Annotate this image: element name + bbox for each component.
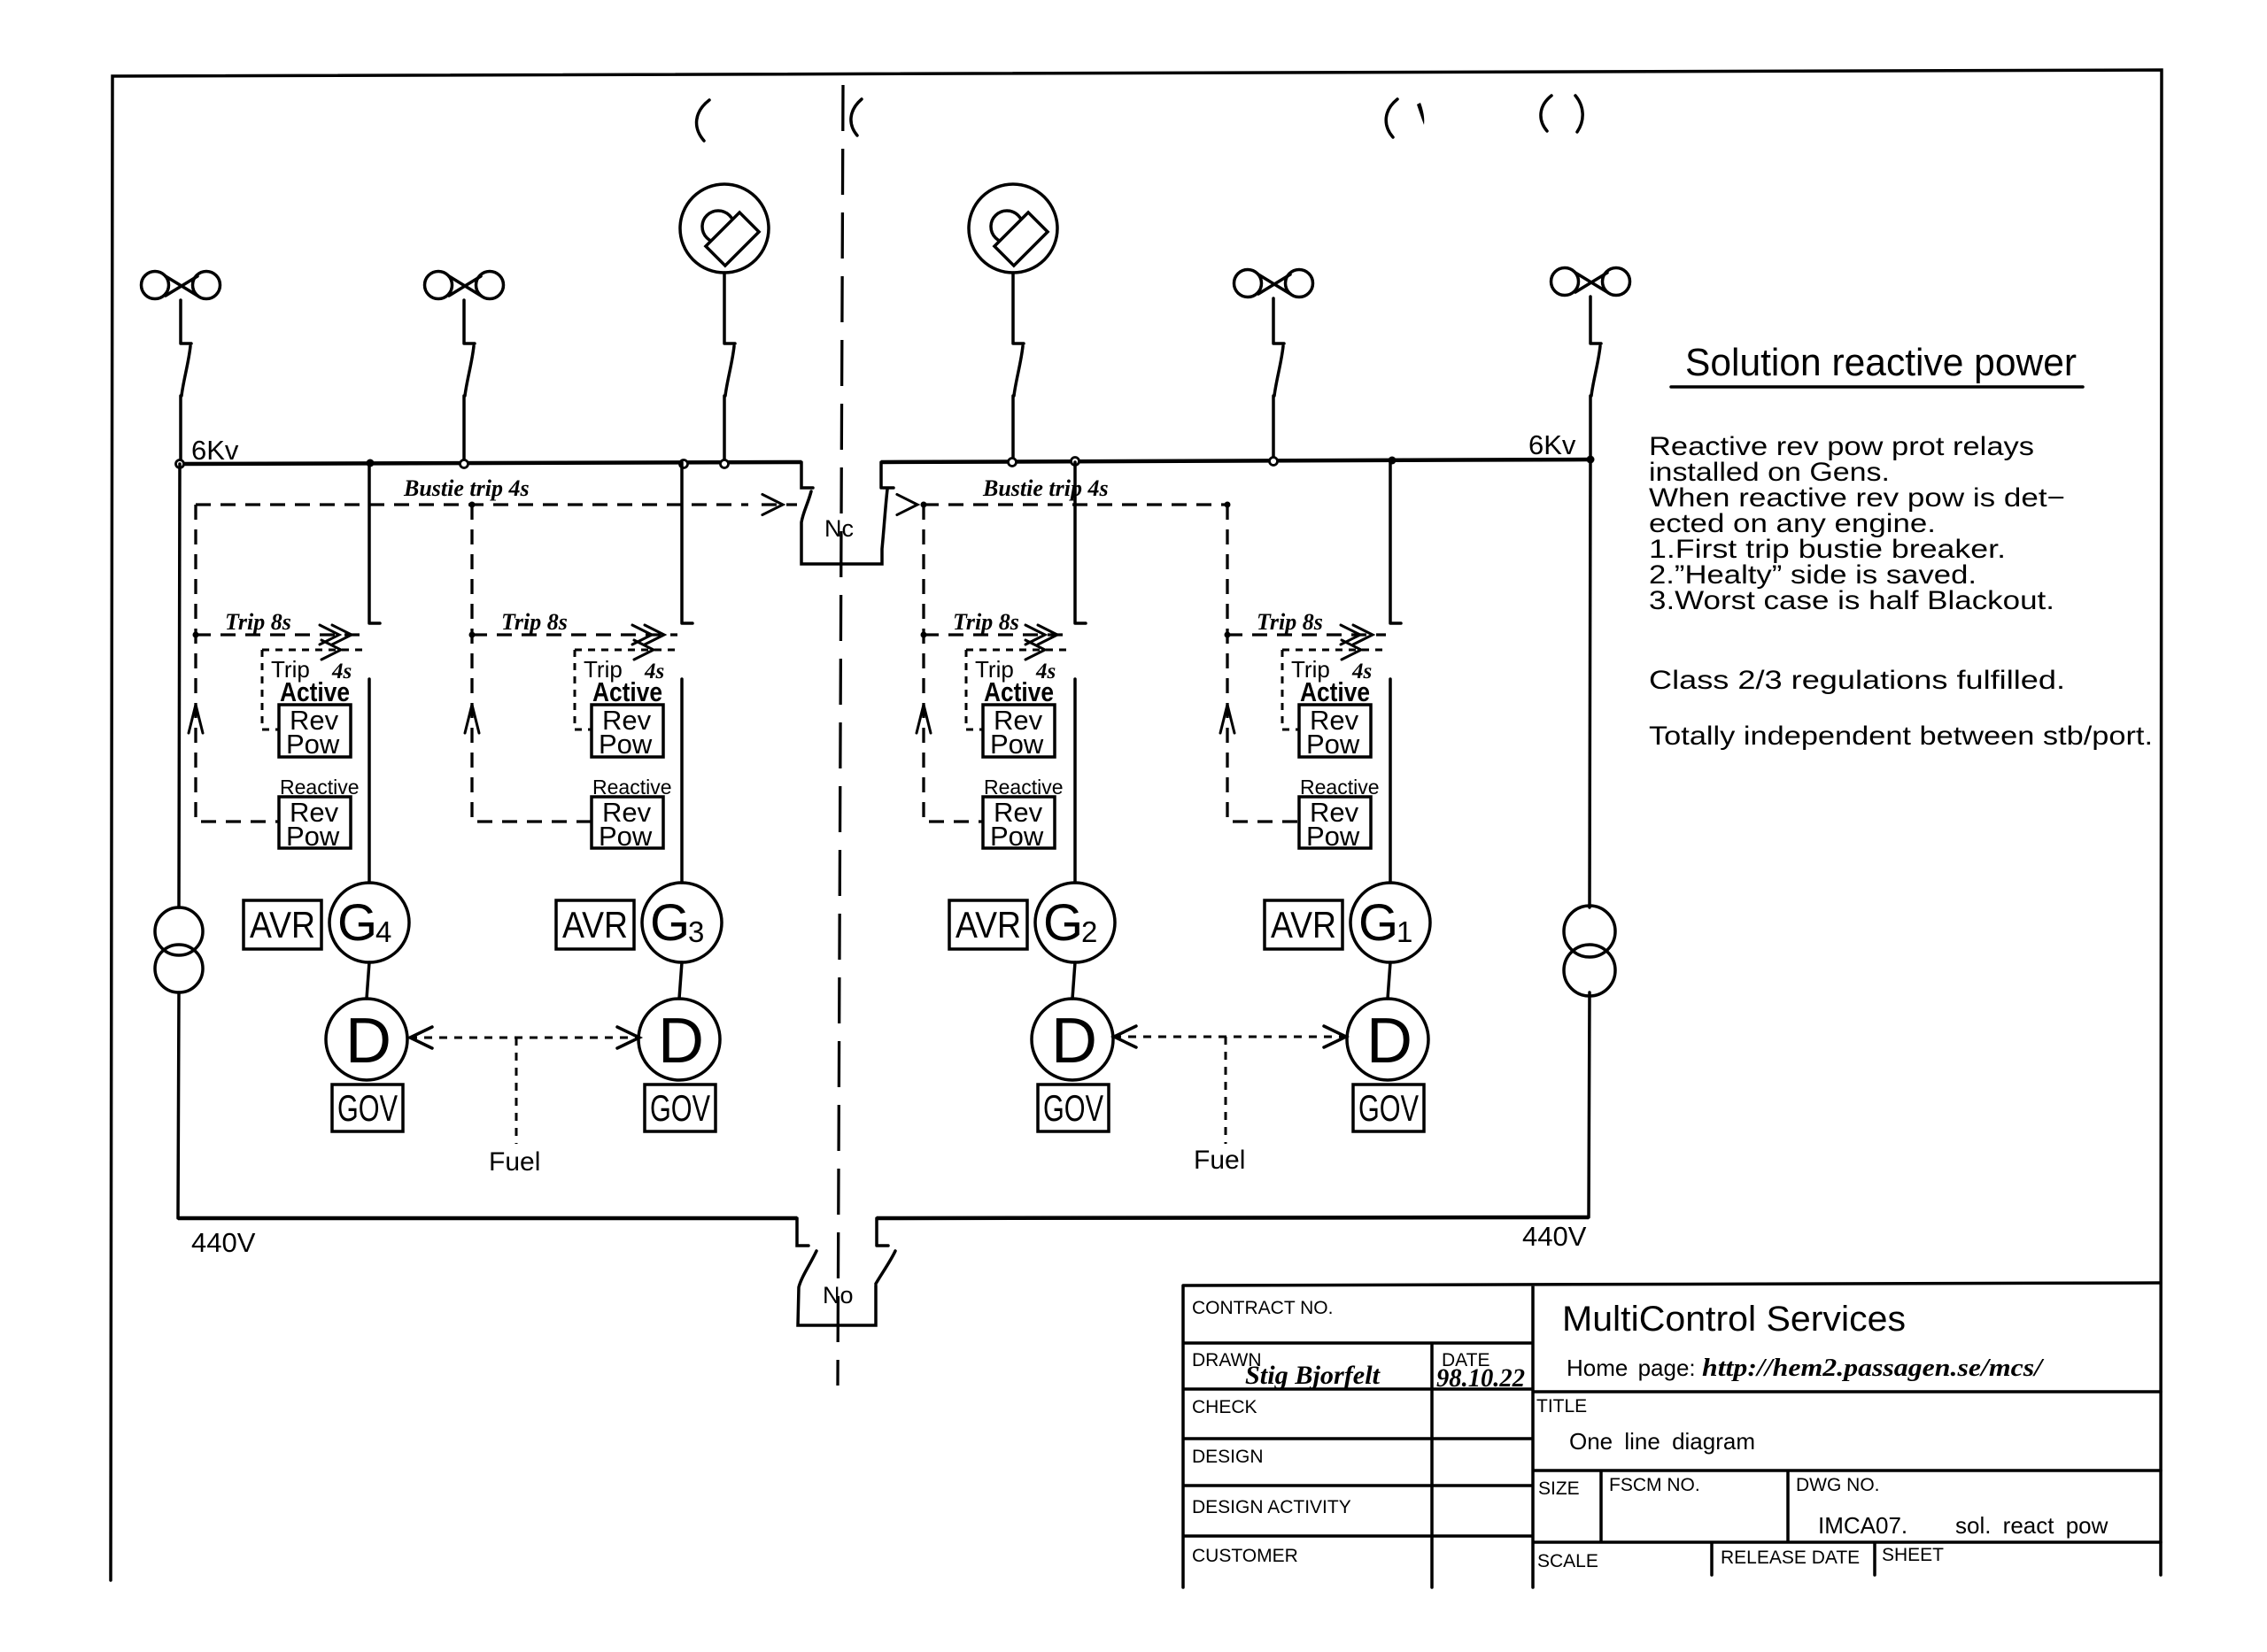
svg-text:CUSTOMER: CUSTOMER bbox=[1192, 1546, 1298, 1566]
svg-text:1: 1 bbox=[1397, 915, 1412, 948]
transformer left bbox=[155, 907, 203, 955]
diesel engine circle G3 bbox=[638, 999, 720, 1080]
svg-text:D: D bbox=[1366, 1006, 1412, 1077]
svg-text:Reactive: Reactive bbox=[280, 776, 359, 799]
svg-text:No: No bbox=[823, 1282, 854, 1308]
svg-text:Bustie trip 4s: Bustie trip 4s bbox=[403, 475, 530, 501]
440V bus right section bbox=[877, 1217, 1589, 1218]
scan mark arc 2 bbox=[851, 99, 862, 135]
transformer feeder wire left bbox=[178, 464, 180, 1218]
up arrow on trip line G4 bbox=[189, 705, 203, 733]
svg-text:Pow: Pow bbox=[990, 821, 1044, 852]
Trip 4s dashed line G3 bbox=[575, 649, 677, 652]
dashed trip-signal rectangle G3 bbox=[472, 505, 592, 822]
svg-text:Pow: Pow bbox=[599, 729, 653, 760]
svg-text:Trip 8s: Trip 8s bbox=[225, 609, 291, 635]
svg-text:Fuel: Fuel bbox=[489, 1147, 540, 1177]
generator circle G2 bbox=[1035, 883, 1115, 962]
Trip 8s dashed line G3 bbox=[472, 633, 677, 636]
svg-text:AVR: AVR bbox=[562, 904, 628, 946]
svg-text:Bustie trip 4s: Bustie trip 4s bbox=[982, 475, 1109, 501]
title block frame bbox=[1183, 1283, 2161, 1587]
Trip 4s dashed line G4 bbox=[262, 649, 365, 652]
AVR box G2 bbox=[949, 900, 1027, 949]
thruster motor T1 bbox=[702, 211, 734, 243]
generator feeder wire G1 bbox=[1390, 462, 1401, 883]
junction node fan F3 bbox=[1270, 458, 1278, 466]
small dashed trip box G4 bbox=[262, 650, 279, 730]
svg-text:Nc: Nc bbox=[824, 515, 854, 542]
Trip 8s dashed line G2 bbox=[924, 633, 1071, 636]
svg-text:Pow: Pow bbox=[1306, 729, 1360, 760]
svg-text:G: G bbox=[1043, 894, 1083, 952]
svg-text:AVR: AVR bbox=[250, 904, 315, 946]
svg-text:G: G bbox=[337, 894, 377, 952]
6Kv bus right section bbox=[881, 459, 1590, 462]
svg-text:Pow: Pow bbox=[286, 729, 340, 760]
shaft wire G4 bbox=[367, 962, 369, 999]
svg-text:CONTRACT NO.: CONTRACT NO. bbox=[1192, 1298, 1333, 1318]
shaft wire G3 bbox=[679, 962, 682, 999]
fuel dashed link left bbox=[409, 1037, 640, 1039]
generator circle G1 bbox=[1350, 883, 1430, 962]
diesel engine circle G4 bbox=[326, 999, 407, 1080]
Trip 8s dashed line G4 bbox=[196, 633, 365, 636]
shaft wire G2 bbox=[1072, 962, 1075, 999]
diesel engine circle G2 bbox=[1032, 999, 1113, 1080]
transformer right bbox=[1564, 906, 1615, 957]
svg-text:D: D bbox=[658, 1006, 704, 1077]
thruster motor T2 bbox=[991, 211, 1023, 243]
svg-text:Stig Bjorfelt: Stig Bjorfelt bbox=[1245, 1361, 1381, 1390]
svg-text:AVR: AVR bbox=[1271, 904, 1336, 946]
diesel engine circle G1 bbox=[1347, 999, 1428, 1080]
fan load F1 bbox=[142, 272, 169, 299]
svg-text:http://hem2.passagen.se/mcs/: http://hem2.passagen.se/mcs/ bbox=[1702, 1354, 2045, 1382]
svg-text:Trip 8s: Trip 8s bbox=[1257, 609, 1323, 635]
svg-text:Active: Active bbox=[984, 676, 1054, 707]
junction node fan F1 bbox=[176, 460, 184, 468]
svg-text:GOV: GOV bbox=[1043, 1087, 1103, 1129]
svg-text:6Kv: 6Kv bbox=[191, 435, 239, 466]
GOV box G4 bbox=[332, 1085, 403, 1131]
svg-text:Home page:: Home page: bbox=[1567, 1355, 1696, 1381]
svg-text:98.10.22: 98.10.22 bbox=[1436, 1363, 1525, 1393]
junction node generator G4 bbox=[367, 459, 375, 467]
svg-text:RELEASE DATE: RELEASE DATE bbox=[1721, 1548, 1860, 1568]
svg-text:G: G bbox=[1358, 894, 1398, 952]
feeder wire and switch F4 bbox=[1590, 297, 1601, 460]
up arrow on trip line G1 bbox=[1220, 705, 1234, 733]
svg-text:Fuel: Fuel bbox=[1194, 1146, 1245, 1175]
generator feeder wire G2 bbox=[1075, 462, 1086, 883]
Bustie trip 4s line left bbox=[196, 503, 748, 506]
svg-text:One line diagram: One line diagram bbox=[1569, 1428, 1755, 1455]
svg-text:SIZE: SIZE bbox=[1538, 1478, 1580, 1499]
svg-text:IMCA07.: IMCA07. bbox=[1818, 1512, 1907, 1539]
dashed trip-signal rectangle G4 bbox=[196, 505, 279, 822]
svg-text:440V: 440V bbox=[191, 1227, 256, 1258]
junction node generator G1 bbox=[1389, 457, 1397, 465]
svg-text:Reactive: Reactive bbox=[1300, 776, 1379, 799]
AVR box G1 bbox=[1265, 900, 1342, 949]
feeder wire and switch F1 bbox=[181, 300, 191, 460]
svg-text:GOV: GOV bbox=[650, 1087, 710, 1129]
GOV box G3 bbox=[645, 1085, 716, 1131]
svg-text:DESIGN ACTIVITY: DESIGN ACTIVITY bbox=[1192, 1497, 1351, 1517]
svg-text:DWG NO.: DWG NO. bbox=[1796, 1475, 1880, 1495]
junction node generator G2 bbox=[1072, 458, 1079, 466]
fuel dashed link right bbox=[1113, 1036, 1347, 1038]
junction node generator G3 bbox=[680, 460, 688, 468]
svg-text:Trip 8s: Trip 8s bbox=[501, 609, 568, 635]
svg-text:4: 4 bbox=[375, 915, 391, 948]
440V bus left section bbox=[178, 1216, 797, 1221]
feeder wire and switch F2 bbox=[464, 300, 475, 460]
dashed trip-signal rectangle G1 bbox=[1227, 505, 1299, 822]
GOV box G2 bbox=[1038, 1085, 1109, 1131]
svg-text:Pow: Pow bbox=[286, 821, 340, 852]
up arrow on trip line G3 bbox=[465, 705, 479, 733]
ship centreline dashed bbox=[838, 85, 843, 1386]
svg-text:AVR: AVR bbox=[956, 904, 1021, 946]
shaft wire G1 bbox=[1388, 962, 1390, 999]
generator feeder wire G3 bbox=[682, 462, 692, 883]
svg-text:6Kv: 6Kv bbox=[1528, 429, 1576, 460]
svg-text:Active: Active bbox=[1300, 676, 1370, 707]
up arrow on trip line G2 bbox=[917, 705, 931, 733]
fan load F4 bbox=[1551, 268, 1579, 296]
svg-text:Pow: Pow bbox=[1306, 821, 1360, 852]
svg-text:G: G bbox=[650, 894, 690, 952]
junction node thruster T1 bbox=[721, 460, 729, 468]
small dashed trip box G2 bbox=[966, 650, 983, 730]
Trip 4s dashed line G1 bbox=[1282, 649, 1386, 652]
svg-text:3.Worst case is half Blackout.: 3.Worst case is half Blackout. bbox=[1649, 586, 2054, 615]
AVR box G4 bbox=[244, 900, 321, 949]
svg-text:GOV: GOV bbox=[1358, 1087, 1419, 1129]
Trip 8s dashed line G1 bbox=[1227, 633, 1386, 636]
svg-text:TITLE: TITLE bbox=[1536, 1396, 1587, 1417]
AVR box G3 bbox=[556, 900, 634, 949]
junction dot bustie tap G3 bbox=[469, 502, 476, 508]
svg-text:Pow: Pow bbox=[599, 821, 653, 852]
small dashed trip box G3 bbox=[575, 650, 592, 730]
scan mark arc 1 bbox=[697, 100, 709, 141]
fan load F2 bbox=[425, 272, 453, 299]
svg-text:Class 2/3 regulations fulfille: Class 2/3 regulations fulfilled. bbox=[1649, 666, 2065, 695]
junction node fan F2 bbox=[460, 460, 468, 468]
fan load F3 bbox=[1234, 270, 1262, 297]
feeder wire and switch T1 bbox=[724, 273, 735, 460]
svg-text:DESIGN: DESIGN bbox=[1192, 1447, 1264, 1467]
transformer feeder wire right bbox=[1589, 459, 1590, 1217]
svg-text:Pow: Pow bbox=[990, 729, 1044, 760]
Trip 4s dashed line G2 bbox=[966, 649, 1071, 652]
svg-text:sol. react pow: sol. react pow bbox=[1955, 1512, 2108, 1539]
svg-text:FSCM NO.: FSCM NO. bbox=[1609, 1475, 1700, 1495]
svg-text:440V: 440V bbox=[1522, 1221, 1587, 1252]
generator circle G3 bbox=[642, 883, 722, 962]
junction node transformer right bbox=[1587, 456, 1595, 464]
generator feeder wire G4 bbox=[369, 462, 380, 883]
svg-text:3: 3 bbox=[688, 915, 704, 948]
small dashed trip box G1 bbox=[1282, 650, 1299, 730]
svg-text:D: D bbox=[345, 1006, 391, 1077]
scan mark arc 3 bbox=[1386, 99, 1397, 137]
dashed trip-signal rectangle G2 bbox=[924, 505, 983, 822]
svg-text:Totally independent between st: Totally independent between stb/port. bbox=[1649, 722, 2153, 751]
svg-text:2: 2 bbox=[1081, 915, 1097, 948]
junction dot bustie tap G1 bbox=[1225, 502, 1231, 508]
Bustie trip 4s line right bbox=[924, 503, 1227, 506]
svg-text:Active: Active bbox=[280, 676, 350, 707]
svg-text:Reactive: Reactive bbox=[592, 776, 671, 799]
svg-text:SHEET: SHEET bbox=[1882, 1545, 1944, 1565]
svg-text:CHECK: CHECK bbox=[1192, 1397, 1257, 1417]
svg-text:Trip 8s: Trip 8s bbox=[953, 609, 1019, 635]
bus-tie breaker No bbox=[797, 1218, 895, 1325]
svg-text:Active: Active bbox=[592, 676, 662, 707]
junction node thruster T2 bbox=[1009, 459, 1017, 467]
svg-text:SCALE: SCALE bbox=[1537, 1551, 1598, 1571]
bus-tie breaker Nc bbox=[801, 462, 894, 564]
feeder wire and switch T2 bbox=[1013, 273, 1024, 460]
svg-text:GOV: GOV bbox=[337, 1087, 398, 1129]
feeder wire and switch F3 bbox=[1273, 298, 1284, 460]
svg-text:Solution reactive power: Solution reactive power bbox=[1685, 341, 2077, 384]
svg-text:MultiControl Services: MultiControl Services bbox=[1562, 1300, 1906, 1339]
scan mark arc 4 bbox=[1541, 96, 1551, 131]
generator circle G4 bbox=[329, 883, 409, 962]
6Kv bus left section bbox=[180, 462, 801, 464]
GOV box G1 bbox=[1353, 1085, 1424, 1131]
svg-text:D: D bbox=[1051, 1006, 1097, 1077]
svg-text:Reactive: Reactive bbox=[984, 776, 1063, 799]
